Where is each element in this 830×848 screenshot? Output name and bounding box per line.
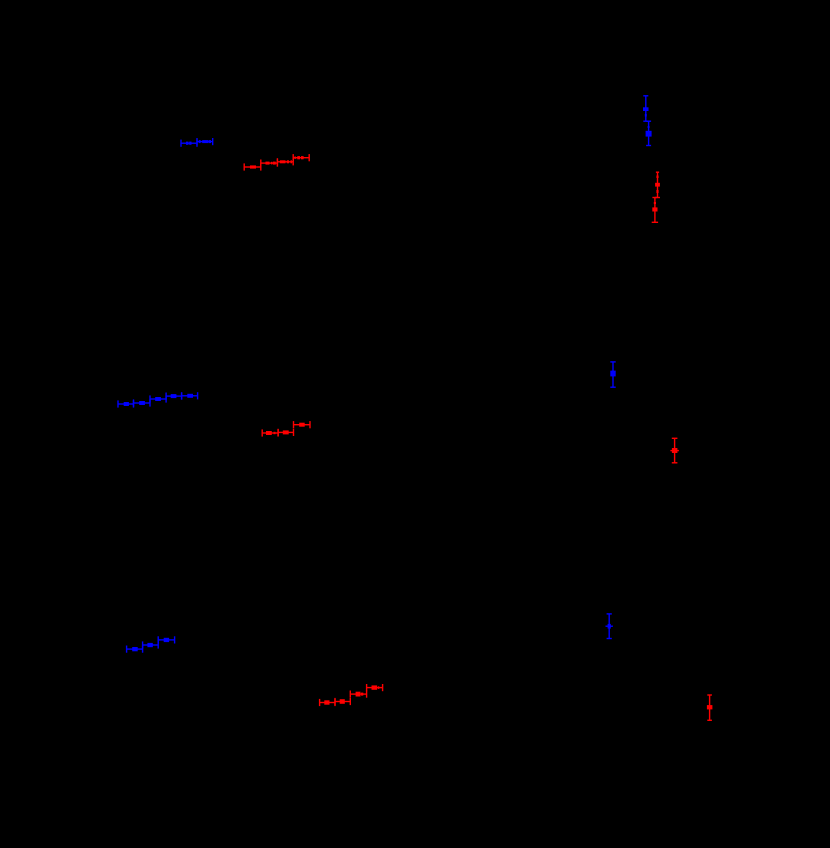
errorbar blue row2 bar5 (181, 392, 198, 399)
errorbar red row3 bar3 (350, 691, 368, 698)
errorbar red row1 bar1 (244, 163, 262, 170)
errorbar blue row3 bar1 (126, 646, 143, 653)
errorbar red row3 bar4 (366, 684, 383, 691)
errorbar red row1 bar4 (293, 154, 310, 161)
errorbar red row2 vert (670, 438, 679, 464)
errorbar red row3 bar2 (334, 698, 351, 705)
errorbar blue row3 vert (606, 613, 613, 639)
errorbar red row3 bar1 (319, 699, 336, 706)
errorbar blue row2 bar4 (165, 393, 182, 400)
errorbar red row1 bar3 (277, 158, 294, 165)
errorbar blue row1 bar1 (180, 140, 197, 147)
errorbar red row3 vert (707, 694, 713, 721)
errorbar blue row2 bar3 (149, 395, 166, 402)
errorbar red row2 bar1 (262, 429, 279, 436)
errorbar blue row1 vert bar2 (646, 121, 652, 147)
errorbar red row2 bar3 (293, 421, 311, 428)
errorbar blue row3 bar2 (142, 641, 159, 648)
errorbar red row1 vert bar2 (652, 197, 658, 223)
errorbar red row1 vert bar1 (655, 172, 660, 199)
errorbar blue row3 bar3 (158, 636, 176, 643)
errorbar blue row1 vert bar1 (643, 95, 649, 122)
errorbar blue row1 bar2 (196, 138, 213, 145)
errorbar blue row2 vert (610, 361, 615, 388)
errorbar red row1 bar2 (260, 160, 278, 167)
errorbar blue row2 bar2 (133, 399, 151, 406)
errorbar blue row2 bar1 (117, 400, 134, 407)
errorbar red row2 bar2 (277, 429, 294, 436)
